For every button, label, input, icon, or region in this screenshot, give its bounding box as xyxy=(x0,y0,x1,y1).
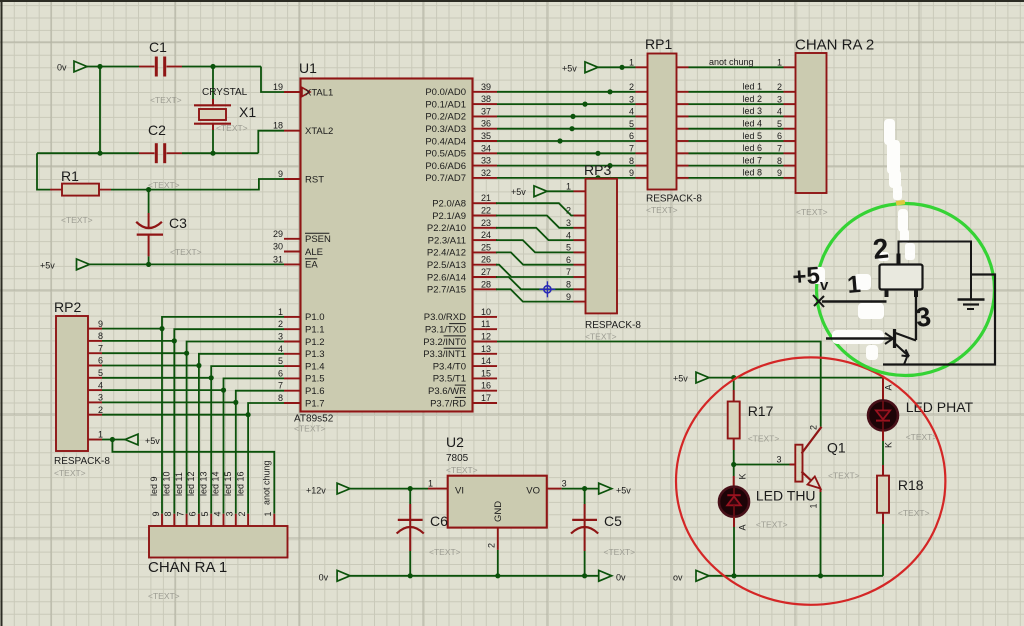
ground symbol xyxy=(958,300,985,310)
svg-text:7: 7 xyxy=(98,343,103,353)
svg-text:29: 29 xyxy=(273,229,283,239)
wire P1.6 down to CHAN RA 1 xyxy=(236,391,284,514)
crystal X1 xyxy=(194,67,256,154)
svg-text:P0.4/AD4: P0.4/AD4 xyxy=(425,136,466,147)
svg-text:2: 2 xyxy=(777,82,782,92)
svg-text:2: 2 xyxy=(871,233,890,265)
U1 pin 34 P0.5/AD5 xyxy=(425,143,497,159)
wire P0.5 to RP1 pin 7 xyxy=(497,152,636,154)
svg-text:<TEXT>: <TEXT> xyxy=(828,471,860,481)
RP2 pin 2 xyxy=(88,405,248,415)
yellow mark xyxy=(896,200,906,206)
power terminal +5v (RP1 pin 1) xyxy=(562,62,598,74)
svg-text:16: 16 xyxy=(481,381,491,391)
svg-text:7: 7 xyxy=(566,267,571,277)
node junction C5 gnd xyxy=(582,573,587,578)
svg-text:P1.1: P1.1 xyxy=(305,325,325,336)
svg-text:+5v: +5v xyxy=(673,374,688,384)
power terminal 0v (left) xyxy=(319,570,351,582)
svg-text:led 5: led 5 xyxy=(742,131,762,141)
svg-text:R18: R18 xyxy=(898,477,924,493)
svg-text:PSEN: PSEN xyxy=(305,234,331,245)
wire P3.2/INT0 to Q1 collector net xyxy=(497,342,821,427)
RP2 pin 3 xyxy=(88,393,236,403)
svg-text:1: 1 xyxy=(777,58,782,68)
svg-text:5: 5 xyxy=(98,368,103,378)
capacitor C2 xyxy=(148,122,166,163)
svg-text:3: 3 xyxy=(278,332,283,342)
resistor pack RP1 RESPACK-8 xyxy=(645,36,702,215)
svg-text:2: 2 xyxy=(629,82,634,92)
svg-text:+5v: +5v xyxy=(562,64,577,74)
RP2 pin 9 xyxy=(88,319,162,329)
svg-text:<TEXT>: <TEXT> xyxy=(148,180,180,190)
svg-text:ov: ov xyxy=(673,573,683,583)
svg-text:<TEXT>: <TEXT> xyxy=(446,465,478,475)
node junction xyxy=(595,175,600,180)
node junction C3/+5v xyxy=(146,262,151,267)
svg-text:RESPACK-8: RESPACK-8 xyxy=(585,320,641,331)
wire base of Q1, pin 3 xyxy=(734,455,796,465)
svg-text:<TEXT>: <TEXT> xyxy=(906,432,938,442)
power terminal +5v (EA) xyxy=(40,259,90,271)
wire ground rail LED section xyxy=(709,575,883,577)
node junction Q1 emitter gnd xyxy=(818,573,823,578)
U1 pin 8 P1.7 xyxy=(278,393,325,409)
wire P1.3 down to CHAN RA 1 xyxy=(199,354,284,514)
svg-text:1: 1 xyxy=(98,430,103,440)
svg-text:P3.1/TXD: P3.1/TXD xyxy=(425,325,466,336)
RP1 pin 4 xyxy=(629,107,648,117)
wire P2.4 to RP3 pin 6 xyxy=(496,252,574,264)
svg-text:led 4: led 4 xyxy=(742,119,762,129)
svg-text:anot chung: anot chung xyxy=(709,57,754,67)
U1 pin 38 P0.1/AD1 xyxy=(425,94,497,110)
svg-text:7: 7 xyxy=(777,144,782,154)
svg-text:K: K xyxy=(738,473,748,479)
svg-text:28: 28 xyxy=(481,279,491,289)
U2 pin 3 VO wire to +5v xyxy=(547,479,631,496)
svg-text:P2.6/A14: P2.6/A14 xyxy=(427,272,466,283)
U1 pin 1 P1.0 xyxy=(278,307,325,323)
svg-text:1: 1 xyxy=(846,271,862,299)
svg-text:0v: 0v xyxy=(319,573,329,583)
U1 pin 18 XTAL2 xyxy=(273,121,333,137)
voltage regulator U2 7805 xyxy=(446,434,547,528)
node junction with RP2 xyxy=(209,375,214,380)
svg-text:P0.1/AD1: P0.1/AD1 xyxy=(425,99,466,110)
node junction R17/LED THU/base xyxy=(731,462,736,467)
svg-text:4: 4 xyxy=(98,380,103,390)
svg-text:5: 5 xyxy=(777,119,782,129)
svg-text:1: 1 xyxy=(566,182,571,192)
wire ground rail xyxy=(350,575,598,577)
svg-text:+5v: +5v xyxy=(511,187,526,197)
wire +5v to EA pin 31 xyxy=(90,263,285,265)
wire RP1 to CHAN RA 2 pin 5 (led 4) xyxy=(677,119,796,129)
svg-text:7: 7 xyxy=(629,144,634,154)
U1 pin 28 P2.7/A15 xyxy=(427,279,497,295)
svg-text:5: 5 xyxy=(566,243,571,253)
svg-text:led 2: led 2 xyxy=(742,94,762,104)
svg-text:39: 39 xyxy=(481,82,491,92)
svg-text:15: 15 xyxy=(481,368,491,378)
svg-text:4: 4 xyxy=(629,107,634,117)
RP3 pin 4 xyxy=(566,230,586,240)
svg-text:R17: R17 xyxy=(748,403,774,419)
node junction xyxy=(582,102,587,107)
power terminal +12v xyxy=(306,483,350,495)
svg-text:K: K xyxy=(884,442,894,448)
svg-text:led 8: led 8 xyxy=(742,168,762,178)
svg-text:11: 11 xyxy=(481,319,490,329)
U1 pin 39 P0.0/AD0 xyxy=(425,82,497,98)
node junction with RP2 xyxy=(172,338,177,343)
svg-text:<TEXT>: <TEXT> xyxy=(756,520,788,530)
CHAN RA 1 pin 6 (led 12) xyxy=(186,471,199,526)
svg-text:30: 30 xyxy=(273,242,283,252)
svg-text:7: 7 xyxy=(278,381,283,391)
wire P1.1 down to CHAN RA 1 xyxy=(174,329,284,514)
node junction with RP2 xyxy=(221,388,226,393)
svg-text:0v: 0v xyxy=(57,63,67,73)
wire P0.0 to RP1 pin 2 xyxy=(497,91,636,93)
svg-text:XTAL2: XTAL2 xyxy=(305,126,333,137)
svg-text:4: 4 xyxy=(212,511,222,516)
U1 pin 13 P3.3/INT1 xyxy=(423,344,497,360)
svg-text:0v: 0v xyxy=(616,573,626,583)
U1 pin 24 P2.3/A11 xyxy=(428,230,497,246)
wire +5v common to anot chung column xyxy=(112,440,274,514)
node junction xyxy=(557,138,562,143)
wire P0.2 to RP1 pin 4 xyxy=(497,115,636,117)
wire RP1 to CHAN RA 2 pin 4 (led 3) xyxy=(677,106,796,116)
svg-text:+12v: +12v xyxy=(306,486,326,496)
svg-text:<TEXT>: <TEXT> xyxy=(646,205,678,215)
CHAN RA 1 pin 4 (led 14) xyxy=(211,471,224,526)
wire P1.0 down to CHAN RA 1 xyxy=(162,317,284,514)
U1 pin 27 P2.6/A14 xyxy=(427,267,497,283)
U1 pin 32 P0.7/AD7 xyxy=(425,168,497,184)
node junction xyxy=(607,163,612,168)
svg-text:VI: VI xyxy=(455,486,464,497)
svg-text:RP1: RP1 xyxy=(645,36,672,52)
CHAN RA 1 pin 5 (led 13) xyxy=(198,471,211,526)
svg-text:led 15: led 15 xyxy=(223,471,233,496)
CHAN RA 1 pin 7 (led 11) xyxy=(174,472,187,526)
svg-text:8: 8 xyxy=(777,156,782,166)
svg-text:ALE: ALE xyxy=(305,247,323,258)
svg-text:C6: C6 xyxy=(430,513,448,529)
svg-text:5: 5 xyxy=(278,356,283,366)
svg-text:<TEXT>: <TEXT> xyxy=(796,207,828,217)
wire P0.6 to RP1 pin 8 xyxy=(497,165,636,167)
svg-text:P0.6/AD6: P0.6/AD6 xyxy=(425,161,466,172)
wire RP1 to CHAN RA 2 pin 3 (led 2) xyxy=(677,94,796,104)
svg-text:led 12: led 12 xyxy=(186,471,196,496)
node junction C6 gnd xyxy=(408,573,413,578)
hand-drawn bottom pins xyxy=(887,289,917,297)
U1 pin 14 P3.4/T0 xyxy=(433,356,497,372)
U1 pin 37 P0.2/AD2 xyxy=(425,106,497,122)
svg-text:6: 6 xyxy=(278,368,283,378)
svg-text:<TEXT>: <TEXT> xyxy=(429,547,461,557)
svg-text:Q1: Q1 xyxy=(827,440,846,456)
U1 pin 2 P1.1 xyxy=(278,319,325,335)
svg-text:led 14: led 14 xyxy=(211,471,221,496)
svg-text:17: 17 xyxy=(481,393,491,403)
node junction R17 top xyxy=(731,375,736,380)
svg-text:led 6: led 6 xyxy=(742,143,762,153)
svg-text:8: 8 xyxy=(278,393,283,403)
node junction with RP2 xyxy=(233,400,238,405)
svg-text:3: 3 xyxy=(777,455,782,465)
connector CHAN RA 1 xyxy=(148,526,288,601)
svg-text:P3.0/RXD: P3.0/RXD xyxy=(424,312,466,323)
wire +5v to RP3 pin 1 xyxy=(547,190,574,192)
svg-text:6: 6 xyxy=(566,255,571,265)
RP1 pin 8 xyxy=(629,156,648,166)
svg-text:CHAN RA 1: CHAN RA 1 xyxy=(148,559,227,576)
svg-text:3: 3 xyxy=(566,218,571,228)
RP3 pin 3 xyxy=(566,218,586,228)
svg-text:4: 4 xyxy=(566,230,571,240)
wire P2.5 to RP3 pin 7 xyxy=(496,265,574,277)
U1 pin 11 P3.1/TXD xyxy=(425,319,497,335)
svg-text:8: 8 xyxy=(566,280,571,290)
RP1 pin 3 xyxy=(629,94,648,104)
svg-text:7805: 7805 xyxy=(446,453,469,464)
svg-text:9: 9 xyxy=(98,319,103,329)
hand-drawn transistor xyxy=(826,329,916,357)
svg-text:3: 3 xyxy=(629,94,634,104)
CHAN RA 1 pin 9 (led 9) xyxy=(149,476,162,526)
svg-text:+5v: +5v xyxy=(616,486,631,496)
wire 0v vertical drop xyxy=(99,67,101,154)
RP3 pin 5 xyxy=(566,243,586,253)
svg-text:C2: C2 xyxy=(148,122,166,138)
svg-text:+5: +5 xyxy=(792,262,821,291)
capacitor C3 xyxy=(136,190,201,265)
power terminal +5v (LED section) xyxy=(673,372,709,383)
svg-text:6: 6 xyxy=(777,131,782,141)
LED THU xyxy=(719,465,816,576)
hand-drawn wire +5v to pin1 xyxy=(822,300,887,302)
wire P0.4 to RP1 pin 6 xyxy=(497,140,636,142)
svg-text:P3.3/INT1: P3.3/INT1 xyxy=(423,349,466,360)
U1 pin 3 P1.2 xyxy=(278,332,325,348)
U1 pin 22 P2.1/A9 xyxy=(432,206,497,222)
LED PHAT xyxy=(868,378,974,465)
svg-text:P1.0: P1.0 xyxy=(305,312,325,323)
svg-text:1: 1 xyxy=(808,503,818,508)
svg-text:8: 8 xyxy=(163,511,173,516)
svg-text:9: 9 xyxy=(777,168,782,178)
svg-text:+5v: +5v xyxy=(145,436,160,446)
svg-text:CHAN RA 2: CHAN RA 2 xyxy=(795,37,874,54)
U1 pin 23 P2.2/A10 xyxy=(427,218,497,234)
node junction 0v/C2 xyxy=(97,151,102,156)
svg-text:4: 4 xyxy=(278,344,283,354)
svg-text:<TEXT>: <TEXT> xyxy=(148,591,180,601)
CHAN RA 1 pin 2 (led 16) xyxy=(235,471,248,526)
svg-text:P3.7/RD: P3.7/RD xyxy=(430,398,466,409)
red highlight circle annotation xyxy=(676,357,945,604)
hand-drawn x mark xyxy=(813,295,824,307)
svg-text:5: 5 xyxy=(629,119,634,129)
wire +5v to RP1 pin1 xyxy=(598,66,636,68)
svg-text:21: 21 xyxy=(481,193,491,203)
svg-text:<TEXT>: <TEXT> xyxy=(170,247,202,257)
capacitor C6 xyxy=(397,489,461,576)
wire P2.0 to RP3 pin 2 xyxy=(496,203,574,215)
svg-text:7: 7 xyxy=(175,511,185,516)
svg-text:CRYSTAL: CRYSTAL xyxy=(202,87,248,98)
svg-text:EA: EA xyxy=(305,260,318,271)
svg-text:A: A xyxy=(738,524,748,530)
svg-text:P3.6/WR: P3.6/WR xyxy=(428,386,466,397)
RP3 pin 8 xyxy=(566,280,586,290)
svg-text:2: 2 xyxy=(278,319,283,329)
svg-text:led 11: led 11 xyxy=(174,472,184,496)
U1 pin 19 XTAL1 xyxy=(273,82,333,98)
svg-text:P3.2/INT0: P3.2/INT0 xyxy=(423,337,466,348)
hand-drawn wire to ground xyxy=(899,242,972,300)
node junction xyxy=(619,65,624,70)
RP3 pin 1 xyxy=(566,182,586,192)
resistor R1 xyxy=(50,168,180,225)
U1 pin 16 P3.6/WR xyxy=(428,381,497,397)
CHAN RA 1 pin 8 (led 10) xyxy=(162,471,175,526)
svg-text:36: 36 xyxy=(481,119,491,129)
svg-text:+5v: +5v xyxy=(40,261,55,271)
connector CHAN RA 2 xyxy=(795,37,874,218)
node junction with RP2 xyxy=(184,351,189,356)
svg-text:P3.4/T0: P3.4/T0 xyxy=(433,361,466,372)
svg-text:<TEXT>: <TEXT> xyxy=(585,332,617,342)
wire P1.4 down to CHAN RA 1 xyxy=(211,366,284,514)
wire P2.7 to RP3 pin 9 xyxy=(496,289,574,301)
svg-text:2: 2 xyxy=(237,511,247,516)
svg-text:led 16: led 16 xyxy=(235,471,245,496)
svg-text:25: 25 xyxy=(481,242,491,252)
U1 pin 7 P1.6 xyxy=(278,381,325,397)
resistor pack RP2 RESPACK-8 xyxy=(54,299,110,478)
U1 pin 15 P3.5/T1 xyxy=(433,368,497,384)
RP2 pin 5 xyxy=(88,368,211,378)
node junction RP2 pin1 xyxy=(110,437,115,442)
U1 pin 35 P0.4/AD4 xyxy=(425,131,497,147)
wire RP1 to CHAN RA 2 pin 9 (led 8) xyxy=(677,168,796,178)
svg-text:8: 8 xyxy=(629,156,634,166)
RP1 pin 7 xyxy=(629,144,648,154)
wire P0.7 to RP1 pin 9 xyxy=(497,177,636,179)
svg-text:P1.3: P1.3 xyxy=(305,349,325,360)
wire P0.1 to RP1 pin 3 xyxy=(497,103,636,105)
U1 pin 29 PSEN xyxy=(273,229,331,245)
svg-text:P2.1/A9: P2.1/A9 xyxy=(432,211,466,222)
node junction xyxy=(570,114,575,119)
svg-text:P0.2/AD2: P0.2/AD2 xyxy=(425,112,466,123)
svg-text:led 13: led 13 xyxy=(198,471,208,496)
svg-text:31: 31 xyxy=(273,254,283,264)
node junction with RP2 xyxy=(246,412,251,417)
RP3 pin 9 xyxy=(566,292,586,302)
U1 pin 17 P3.7/RD xyxy=(430,393,497,409)
hand-drawn emitter wire to right rail xyxy=(883,275,995,365)
svg-text:33: 33 xyxy=(481,156,491,166)
node junction C6 xyxy=(408,486,413,491)
svg-text:P1.7: P1.7 xyxy=(305,398,325,409)
svg-text:P1.2: P1.2 xyxy=(305,337,325,348)
RP3 pin 2 xyxy=(566,206,586,216)
svg-text:A: A xyxy=(884,384,894,390)
node junction C2/X1 xyxy=(210,151,215,156)
svg-text:P2.4/A12: P2.4/A12 xyxy=(427,248,466,259)
svg-text:led 1: led 1 xyxy=(742,82,762,92)
wire 0v to C1 and XTAL1 xyxy=(87,67,284,93)
svg-text:P0.0/AD0: P0.0/AD0 xyxy=(425,87,466,98)
svg-text:9: 9 xyxy=(151,511,161,516)
XTAL1 clock input marker xyxy=(302,88,310,97)
node junction U2 gnd xyxy=(495,573,500,578)
capacitor C1 xyxy=(149,39,182,105)
node junction R1/C3 xyxy=(146,187,151,192)
svg-text:P2.3/A11: P2.3/A11 xyxy=(428,235,466,246)
green highlight circle annotation xyxy=(817,204,995,376)
svg-text:VO: VO xyxy=(526,486,540,497)
svg-text:9: 9 xyxy=(629,168,634,178)
svg-text:14: 14 xyxy=(481,356,491,366)
svg-text:GND: GND xyxy=(493,501,504,522)
RP1 pin 1 xyxy=(629,58,648,68)
svg-text:P3.5/T1: P3.5/T1 xyxy=(433,374,466,385)
svg-text:1: 1 xyxy=(629,58,634,68)
U1 pin 12 P3.2/INT0 xyxy=(423,332,497,348)
wire P2.2 to RP3 pin 4 xyxy=(496,228,574,240)
resistor R17 xyxy=(728,378,780,465)
svg-text:37: 37 xyxy=(481,106,491,116)
resistor pack RP3 RESPACK-8 xyxy=(584,162,641,342)
svg-text:led 9: led 9 xyxy=(149,476,159,496)
CHAN RA 1 pin 1 (anot chung) xyxy=(262,460,275,526)
svg-text:38: 38 xyxy=(481,94,491,104)
svg-text:anot chung: anot chung xyxy=(262,460,272,505)
node junction xyxy=(595,151,600,156)
power terminal 0v (LED section) xyxy=(673,570,709,582)
U1 pin 10 P3.0/RXD xyxy=(424,307,497,323)
U1 pin 21 P2.0/A8 xyxy=(432,193,497,209)
wire P2.1 to RP3 pin 3 xyxy=(496,216,574,228)
svg-text:9: 9 xyxy=(278,169,283,179)
svg-text:9: 9 xyxy=(566,292,571,302)
white-out correction patches xyxy=(812,119,915,360)
svg-text:3: 3 xyxy=(225,511,235,516)
svg-text:19: 19 xyxy=(273,82,283,92)
power terminal 0v (top left) xyxy=(57,61,87,72)
svg-text:13: 13 xyxy=(481,344,491,354)
svg-text:35: 35 xyxy=(481,131,491,141)
svg-text:5: 5 xyxy=(200,511,210,516)
svg-text:6: 6 xyxy=(629,131,634,141)
U1 pin 4 P1.3 xyxy=(278,344,325,360)
wire +12v to U2 VI xyxy=(350,479,448,489)
U1 pin 30 ALE xyxy=(273,242,323,258)
svg-text:26: 26 xyxy=(481,255,491,265)
U2 pin 2 GND xyxy=(487,528,498,576)
RP1 pin 2 xyxy=(629,82,648,92)
RP2 pin 6 xyxy=(88,356,199,366)
